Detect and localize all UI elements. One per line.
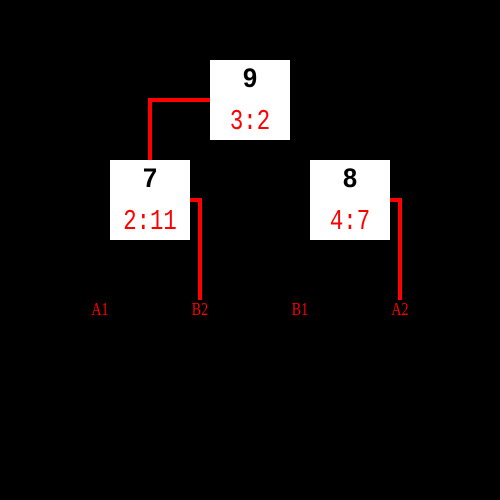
wire from node 8 to leaf A2 (horizontal): [390, 198, 402, 202]
node 7 label: [112, 165, 188, 192]
leaf label A1: [77, 300, 124, 318]
leaf label A2: [377, 300, 424, 318]
wire from node 7 to leaf B2 (horizontal): [190, 198, 202, 202]
leaf label B1: [277, 300, 324, 318]
wire from node 9 to node 7 (vertical): [148, 98, 152, 161]
node 7 score 2:11: [104, 207, 196, 236]
wire from node 9 to node 7 (horizontal): [150, 98, 210, 102]
node 9 score 3:2: [204, 107, 296, 136]
node box 7: [110, 160, 190, 240]
node 8 score 4:7: [304, 207, 396, 236]
node 8 label: [312, 165, 388, 192]
node box 9: [210, 60, 290, 140]
node 9 label: [212, 65, 288, 92]
wire from node 7 to leaf B2 (vertical): [198, 198, 202, 300]
node box 8: [310, 160, 390, 240]
wire from node 8 to leaf A2 (vertical): [398, 198, 402, 300]
leaf label B2: [177, 300, 224, 318]
